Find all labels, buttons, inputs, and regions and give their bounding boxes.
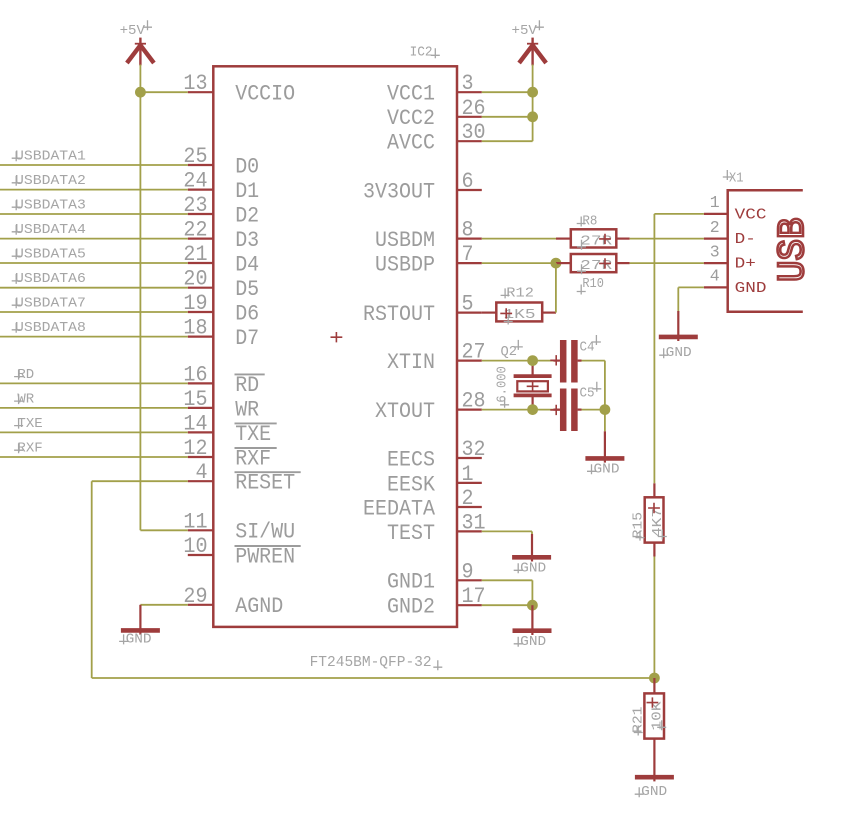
- resistor R21 10K: [644, 678, 666, 781]
- svg-text:4: 4: [710, 267, 720, 286]
- node IC2 origin cross: [331, 332, 343, 342]
- pin 11 SI/WU (IC2 left): [183, 509, 295, 544]
- svg-text:USBDATA5: USBDATA5: [15, 247, 86, 262]
- wire net USBDATA4: [0, 223, 188, 239]
- pin 20 D5 (IC2 left): [183, 267, 259, 302]
- pin 18 D7 (IC2 left): [183, 316, 259, 351]
- pin 32 EECS (IC2 right): [387, 437, 486, 472]
- svg-text:GND: GND: [520, 561, 546, 576]
- svg-text:USBDATA1: USBDATA1: [15, 149, 86, 164]
- resistor R8 27R: [556, 229, 630, 250]
- wire net TXE: [0, 417, 188, 433]
- node R21 name label: [631, 707, 646, 736]
- svg-text:EECS: EECS: [387, 447, 435, 472]
- node R15 name label: [631, 512, 646, 541]
- svg-text:USBDATA8: USBDATA8: [15, 321, 86, 336]
- svg-text:3: 3: [710, 242, 720, 261]
- svg-text:RSTOUT: RSTOUT: [363, 302, 435, 327]
- svg-text:GND: GND: [666, 346, 692, 361]
- wire +5V vertical rail to SI/WU: [140, 65, 187, 531]
- pin 31 TEST (IC2 right): [387, 510, 486, 545]
- node Q2 name label: [501, 340, 523, 360]
- svg-text:GND: GND: [594, 462, 620, 477]
- svg-text:D5: D5: [235, 277, 259, 302]
- svg-text:D6: D6: [235, 301, 259, 326]
- svg-text:USBDATA2: USBDATA2: [15, 174, 86, 189]
- svg-text:USBDM: USBDM: [375, 228, 435, 253]
- node C5 name label: [580, 382, 602, 402]
- wire R12 up to USBDP junction: [555, 263, 557, 313]
- wire net RD: [0, 368, 188, 384]
- svg-text:4: 4: [195, 460, 207, 485]
- svg-text:TXE: TXE: [235, 422, 271, 447]
- pin 19 D6 (IC2 left): [183, 291, 259, 326]
- junction capacitors to ground: [600, 404, 611, 415]
- ground GND (USB): [659, 337, 698, 361]
- wire AGND to ground: [140, 605, 187, 635]
- svg-text:2: 2: [462, 486, 474, 511]
- svg-text:RD: RD: [235, 373, 259, 398]
- pin 1 VCC (X1): [704, 193, 767, 223]
- ground GND (GND1/GND2): [513, 605, 552, 650]
- pin 5 RSTOUT (IC2 right): [363, 292, 482, 327]
- wire net USBDATA6: [0, 272, 188, 288]
- pin 14 TXE (IC2 left): [183, 411, 276, 446]
- pin 4 RESET (IC2 left): [188, 460, 301, 495]
- wire USBDP to R10: [482, 262, 556, 264]
- wire R10 to USB D+: [630, 262, 704, 264]
- junction XTOUT crystal: [527, 404, 538, 415]
- svg-text:RD: RD: [17, 368, 34, 383]
- wire C4 right to C5 right: [582, 361, 605, 432]
- svg-text:VCC: VCC: [735, 207, 767, 224]
- svg-text:7: 7: [462, 242, 474, 267]
- pin 25 D0 (IC2 left): [183, 144, 259, 179]
- power +5V supply symbol (left): [120, 20, 154, 65]
- wire net USBDATA7: [0, 296, 188, 312]
- svg-text:GND: GND: [641, 785, 667, 800]
- ground GND (crystal caps): [585, 431, 624, 477]
- pin 24 D1 (IC2 left): [183, 169, 259, 204]
- svg-text:FT245BM-QFP-32: FT245BM-QFP-32: [310, 653, 432, 671]
- junction VCC1: [527, 87, 538, 98]
- node IC2 label: [410, 46, 440, 61]
- wire RESET net (down and along bottom): [92, 481, 655, 678]
- svg-text:D7: D7: [235, 326, 259, 351]
- wire VCCIO from +5V rail: [140, 91, 187, 93]
- svg-text:D+: D+: [735, 256, 756, 273]
- svg-text:D-: D-: [735, 231, 756, 248]
- svg-text:3V3OUT: 3V3OUT: [363, 179, 435, 204]
- svg-text:5: 5: [462, 292, 474, 317]
- IC IC2 FT245BM-QFP-32 body: [213, 66, 457, 627]
- svg-text:6.000: 6.000: [495, 366, 510, 402]
- pin 10 PWREN (IC2 left): [183, 534, 300, 569]
- svg-text:RESET: RESET: [235, 471, 295, 496]
- wire net USBDATA1: [0, 149, 188, 165]
- svg-text:1: 1: [710, 193, 720, 212]
- svg-text:+5V: +5V: [512, 24, 538, 39]
- svg-text:9: 9: [462, 559, 474, 584]
- svg-text:GND2: GND2: [387, 595, 435, 620]
- svg-text:EEDATA: EEDATA: [363, 496, 436, 521]
- wire XTIN to crystal/C4: [482, 360, 554, 362]
- node FT245BM-QFP-32 value label: [310, 653, 443, 671]
- svg-text:GND: GND: [520, 635, 546, 650]
- wire XTOUT to crystal/C5: [482, 409, 554, 411]
- svg-text:D4: D4: [235, 252, 259, 277]
- svg-text:TEST: TEST: [387, 521, 435, 546]
- svg-text:D3: D3: [235, 228, 259, 253]
- wire net USBDATA2: [0, 174, 188, 190]
- svg-text:USBDATA4: USBDATA4: [15, 223, 86, 238]
- svg-text:1: 1: [462, 462, 474, 487]
- svg-text:D2: D2: [235, 203, 259, 228]
- pin 3 VCC1 (IC2 right): [387, 71, 482, 106]
- svg-text:RXF: RXF: [17, 441, 42, 456]
- pin 8 USBDM (IC2 right): [375, 218, 482, 253]
- pin 23 D2 (IC2 left): [183, 193, 259, 228]
- svg-text:AGND: AGND: [235, 594, 283, 619]
- node Q2 value 6.000 label: [495, 366, 510, 408]
- svg-text:D1: D1: [235, 179, 259, 204]
- pin 2 EEDATA (IC2 right): [363, 486, 482, 521]
- wire net WR: [0, 392, 188, 408]
- svg-text:TXE: TXE: [17, 417, 42, 432]
- junction bottom rail / RESET net: [649, 673, 660, 684]
- svg-text:GND: GND: [735, 280, 767, 297]
- junction VCC2: [527, 111, 538, 122]
- pin 7 USBDP (IC2 right): [375, 242, 482, 277]
- node R8 name label: [577, 215, 598, 230]
- junction XTIN crystal: [527, 355, 538, 366]
- svg-text:6: 6: [462, 169, 474, 194]
- wire TEST to ground: [482, 531, 532, 561]
- svg-text:USB: USB: [772, 218, 815, 283]
- svg-text:XTOUT: XTOUT: [375, 399, 435, 424]
- power +5V supply symbol (right): [512, 20, 547, 65]
- svg-text:PWREN: PWREN: [235, 544, 295, 569]
- wire USBDM to R8: [482, 238, 556, 240]
- resistor R12 1K5: [482, 303, 556, 325]
- svg-text:X1: X1: [729, 172, 744, 187]
- resistor R15 4K7: [645, 483, 667, 556]
- svg-text:32: 32: [462, 437, 486, 462]
- pin 28 XTOUT (IC2 right): [375, 389, 486, 424]
- pin 30 AVCC (IC2 right): [387, 120, 486, 155]
- svg-text:D0: D0: [235, 154, 259, 179]
- node C4 name label: [580, 335, 601, 356]
- pin 16 RD (IC2 left): [183, 362, 264, 397]
- capacitor C5: [550, 389, 581, 432]
- wire +5V to VCC1/VCC2/AVCC: [482, 65, 533, 142]
- junction USBDP / 1K5 pullup: [551, 258, 562, 269]
- svg-text:VCC1: VCC1: [387, 82, 435, 107]
- svg-text:USBDATA7: USBDATA7: [15, 296, 86, 311]
- svg-text:WR: WR: [235, 397, 259, 422]
- svg-text:WR: WR: [17, 392, 34, 407]
- capacitor C4: [550, 340, 581, 383]
- svg-text:SI/WU: SI/WU: [235, 520, 295, 545]
- wire USB VCC to R15 rail: [654, 214, 704, 483]
- wire GND2: [482, 604, 533, 606]
- wire USB GND to ground: [678, 287, 704, 341]
- pin 6 3V3OUT (IC2 right): [363, 169, 482, 204]
- svg-text:RXF: RXF: [235, 446, 271, 471]
- pin 21 D4 (IC2 left): [183, 242, 259, 277]
- svg-text:R15: R15: [631, 512, 646, 539]
- wire net USBDATA5: [0, 247, 188, 263]
- pin 26 VCC2 (IC2 right): [387, 96, 486, 131]
- svg-text:C4: C4: [580, 341, 595, 356]
- svg-text:VCC2: VCC2: [387, 106, 435, 131]
- svg-text:C5: C5: [580, 387, 595, 402]
- pin 4 GND (X1): [704, 267, 767, 297]
- junction GND1/GND2: [527, 600, 538, 611]
- svg-text:R8: R8: [582, 215, 597, 230]
- svg-text:USBDP: USBDP: [375, 253, 435, 278]
- pin 2 D- (X1): [704, 218, 756, 248]
- node R12 name label: [501, 286, 534, 301]
- pin 13 VCCIO (IC2 left): [183, 71, 295, 106]
- svg-text:VCCIO: VCCIO: [235, 82, 295, 107]
- ground GND (TEST): [512, 557, 551, 576]
- pin 9 GND1 (IC2 right): [387, 559, 482, 594]
- svg-text:+5V: +5V: [120, 24, 146, 39]
- wire net USBDATA8: [0, 321, 188, 337]
- svg-text:USBDATA3: USBDATA3: [15, 198, 86, 213]
- connector X1 USB body: [728, 190, 815, 311]
- svg-text:EESK: EESK: [387, 472, 436, 497]
- svg-text:AVCC: AVCC: [387, 131, 435, 156]
- pin 1 EESK (IC2 right): [387, 462, 482, 497]
- svg-text:R10: R10: [582, 277, 604, 292]
- resistor R10 27R: [556, 254, 630, 274]
- pin 15 WR (IC2 left): [183, 387, 259, 422]
- svg-text:GND: GND: [126, 632, 152, 647]
- svg-text:R12: R12: [506, 286, 534, 301]
- svg-text:3: 3: [462, 71, 474, 96]
- wire GND1: [482, 580, 533, 605]
- svg-text:4K7: 4K7: [651, 508, 666, 537]
- svg-text:10: 10: [183, 534, 207, 559]
- svg-text:IC2: IC2: [410, 46, 433, 61]
- crystal Q2 6.000: [514, 361, 552, 410]
- wire net RXF: [0, 441, 188, 457]
- pin 3 D+ (X1): [704, 242, 756, 272]
- wire net USBDATA3: [0, 198, 188, 214]
- pin 29 AGND (IC2 left): [183, 584, 283, 619]
- pin 12 RXF (IC2 left): [183, 436, 276, 471]
- svg-text:8: 8: [462, 218, 474, 243]
- pin 22 D3 (IC2 left): [183, 218, 259, 253]
- node X1 name label: [723, 170, 744, 187]
- svg-text:2: 2: [710, 218, 720, 237]
- wire R8 to USB D-: [630, 238, 704, 240]
- svg-text:XTIN: XTIN: [387, 350, 435, 375]
- svg-text:GND1: GND1: [387, 570, 435, 595]
- node R10 name label: [577, 277, 604, 295]
- ground GND (AGND): [119, 630, 160, 647]
- pin 17 GND2 (IC2 right): [387, 584, 486, 619]
- pin 27 XTIN (IC2 right): [387, 340, 486, 375]
- ground GND (R21): [635, 777, 674, 800]
- junction on +5V rail at VCCIO: [135, 87, 146, 98]
- wire R15 to bottom junction: [653, 557, 655, 679]
- svg-text:USBDATA6: USBDATA6: [15, 272, 86, 287]
